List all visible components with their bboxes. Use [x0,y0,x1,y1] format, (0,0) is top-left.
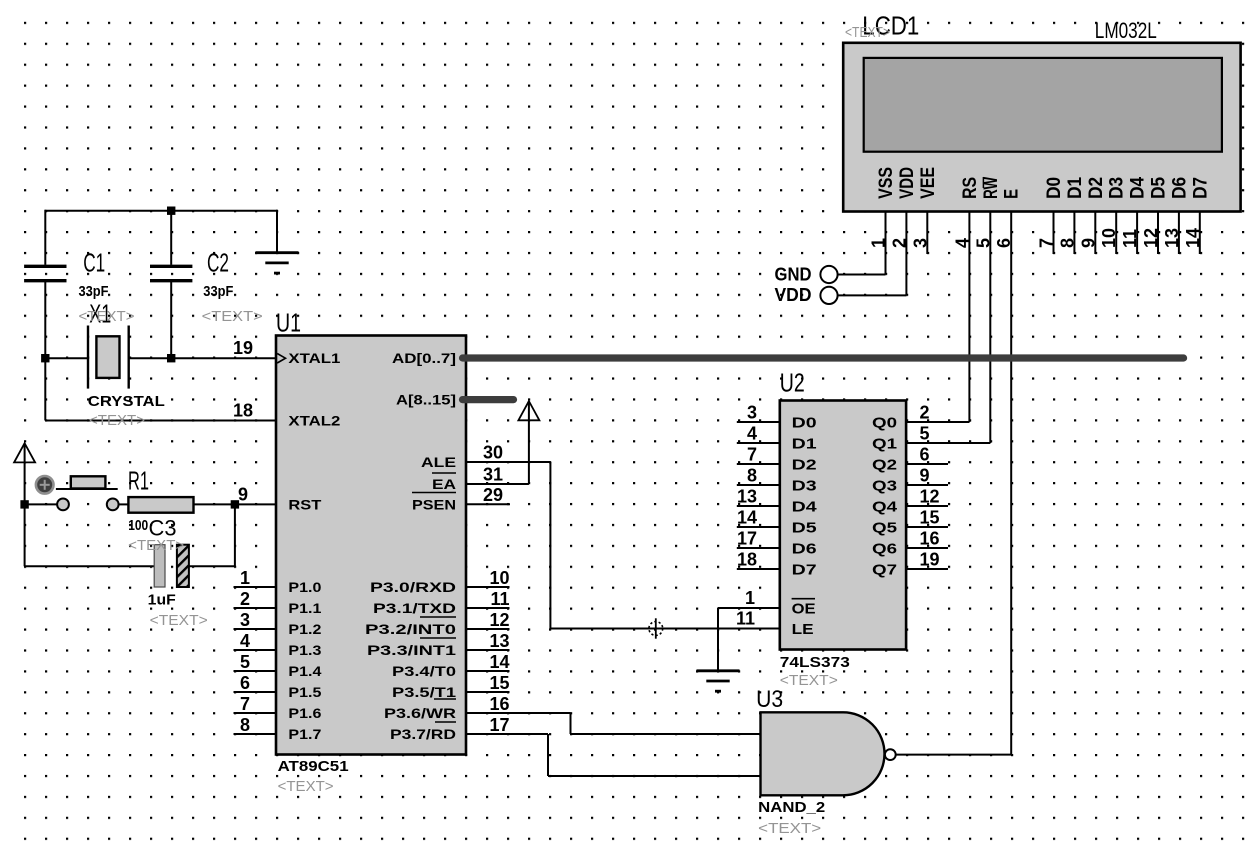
svg-text:U3: U3 [756,686,783,713]
svg-text:<TEXT>: <TEXT> [278,778,334,795]
svg-text:1: 1 [869,238,889,248]
svg-text:6: 6 [920,445,930,465]
svg-text:RS: RS [960,177,981,199]
svg-text:10: 10 [1099,228,1119,248]
svg-text:2: 2 [920,403,930,423]
svg-text:EA: EA [432,476,456,492]
svg-text:3: 3 [910,238,930,248]
svg-text:P1.1: P1.1 [288,600,321,616]
svg-text:RST: RST [288,496,322,512]
svg-text:12: 12 [489,610,509,630]
svg-text:P3.3/INT1: P3.3/INT1 [367,642,456,658]
svg-text:<TEXT>: <TEXT> [758,820,821,837]
svg-text:13: 13 [737,487,757,507]
svg-text:D1: D1 [792,436,817,453]
svg-text:18: 18 [233,401,253,421]
svg-text:D6: D6 [792,541,817,558]
svg-text:8: 8 [1057,238,1077,248]
svg-text:P1.3: P1.3 [288,642,321,658]
svg-text:P3.5/T1: P3.5/T1 [392,684,456,700]
svg-text:6: 6 [240,673,250,693]
svg-text:<TEXT>: <TEXT> [150,612,208,629]
svg-text:U1: U1 [276,308,301,338]
svg-text:D2: D2 [1086,177,1107,199]
svg-text:16: 16 [489,694,509,714]
svg-text:R1: R1 [128,466,149,496]
svg-text:5: 5 [973,238,993,248]
svg-text:5: 5 [920,424,930,444]
svg-text:1: 1 [745,588,755,608]
svg-text:D4: D4 [792,499,818,516]
svg-text:C2: C2 [207,248,229,278]
svg-text:30: 30 [483,443,503,463]
svg-text:P3.0/RXD: P3.0/RXD [370,579,456,595]
svg-text:P3.4/T0: P3.4/T0 [392,663,456,679]
svg-text:VDD: VDD [775,285,812,305]
svg-text:AT89C51: AT89C51 [278,758,349,775]
svg-text:16: 16 [920,529,940,549]
svg-text:3: 3 [240,610,250,630]
svg-text:<TEXT>: <TEXT> [89,412,145,429]
svg-text:Q7: Q7 [872,562,897,579]
svg-text:4: 4 [240,631,250,651]
svg-text:13: 13 [489,631,509,651]
svg-text:Q2: Q2 [872,457,897,474]
svg-text:Q3: Q3 [872,478,897,495]
svg-text:VSS: VSS [876,167,897,199]
svg-text:10: 10 [489,568,509,588]
svg-text:LM032L: LM032L [1095,18,1157,43]
svg-text:14: 14 [489,652,509,672]
svg-text:8: 8 [240,715,250,735]
svg-text:LE: LE [792,621,814,638]
svg-text:C1: C1 [83,248,105,278]
svg-text:74LS373: 74LS373 [780,654,850,671]
svg-text:9: 9 [1078,238,1098,248]
svg-text:15: 15 [489,673,509,693]
svg-text:14: 14 [1183,228,1203,248]
svg-text:12: 12 [920,487,940,507]
svg-text:18: 18 [737,550,757,570]
svg-text:11: 11 [1120,229,1140,248]
svg-text:D7: D7 [1190,177,1211,199]
svg-text:NAND_2: NAND_2 [758,799,825,816]
svg-text:8: 8 [747,466,757,486]
svg-text:9: 9 [920,466,930,486]
svg-text:13: 13 [1162,228,1182,248]
svg-text:P1.4: P1.4 [288,663,321,679]
svg-text:D4: D4 [1128,177,1149,199]
svg-text:7: 7 [1037,238,1057,248]
svg-text:D6: D6 [1169,177,1190,199]
svg-text:P3.7/RD: P3.7/RD [390,726,456,742]
svg-text:19: 19 [920,550,940,570]
svg-text:<TEXT>: <TEXT> [845,24,890,41]
svg-text:11: 11 [490,589,509,609]
svg-text:XTAL2: XTAL2 [288,413,340,429]
svg-text:Q6: Q6 [872,541,897,558]
svg-text:D1: D1 [1065,177,1086,199]
svg-text:11: 11 [736,609,755,629]
svg-text:VDD: VDD [897,167,918,199]
svg-text:<TEXT>: <TEXT> [128,537,184,554]
svg-text:Q4: Q4 [872,499,898,516]
svg-text:<TEXT>: <TEXT> [780,672,838,689]
svg-text:29: 29 [483,485,503,505]
svg-text:A[8..15]: A[8..15] [396,392,456,408]
svg-text:PSEN: PSEN [412,496,456,512]
svg-text:D3: D3 [792,478,817,495]
svg-text:100: 100 [128,517,148,534]
svg-text:P3.6/WR: P3.6/WR [384,705,456,721]
svg-text:9: 9 [238,484,248,504]
svg-text:4: 4 [952,238,972,248]
svg-text:12: 12 [1141,228,1161,248]
svg-text:33pF: 33pF [79,283,109,300]
svg-text:U2: U2 [780,368,805,398]
svg-text:XTAL1: XTAL1 [288,350,340,366]
svg-text:E: E [1002,189,1023,199]
svg-text:Q0: Q0 [872,415,897,432]
svg-text:6: 6 [994,238,1014,248]
svg-text:Q5: Q5 [872,520,897,537]
svg-text:VEE: VEE [918,167,939,199]
svg-text:OE: OE [792,601,816,618]
svg-text:5: 5 [240,652,250,672]
svg-text:D2: D2 [792,457,817,474]
svg-text:D0: D0 [792,415,817,432]
svg-text:D0: D0 [1044,177,1065,199]
svg-text:2: 2 [240,589,250,609]
svg-text:7: 7 [240,694,250,714]
svg-text:P1.6: P1.6 [288,705,321,721]
svg-text:1uF: 1uF [148,592,176,609]
svg-text:31: 31 [483,465,503,485]
svg-text:Q1: Q1 [872,436,897,453]
svg-text:CRYSTAL: CRYSTAL [88,393,165,410]
svg-text:17: 17 [737,529,757,549]
svg-text:7: 7 [747,445,757,465]
svg-text:19: 19 [233,338,253,358]
svg-text:<TEXT>: <TEXT> [79,308,135,325]
svg-text:14: 14 [737,508,757,528]
svg-text:AD[0..7]: AD[0..7] [392,350,456,366]
svg-text:D5: D5 [792,520,817,537]
svg-text:P1.7: P1.7 [288,726,321,742]
svg-text:4: 4 [747,424,757,444]
svg-text:3: 3 [747,403,757,423]
svg-text:D7: D7 [792,562,817,579]
svg-text:1: 1 [240,568,250,588]
svg-text:P1.2: P1.2 [288,621,321,637]
svg-text:GND: GND [775,264,812,284]
svg-text:<TEXT>: <TEXT> [202,308,263,325]
svg-text:P1.5: P1.5 [288,684,321,700]
svg-text:D3: D3 [1107,177,1128,199]
svg-text:15: 15 [920,508,940,528]
svg-text:P1.0: P1.0 [288,579,321,595]
svg-text:33pF: 33pF [203,283,233,300]
svg-text:ALE: ALE [421,454,456,470]
svg-text:D5: D5 [1149,177,1170,199]
svg-text:17: 17 [489,715,509,735]
svg-text:P3.1/TXD: P3.1/TXD [373,600,456,616]
svg-text:2: 2 [889,238,909,248]
svg-text:P3.2/INT0: P3.2/INT0 [365,621,456,637]
